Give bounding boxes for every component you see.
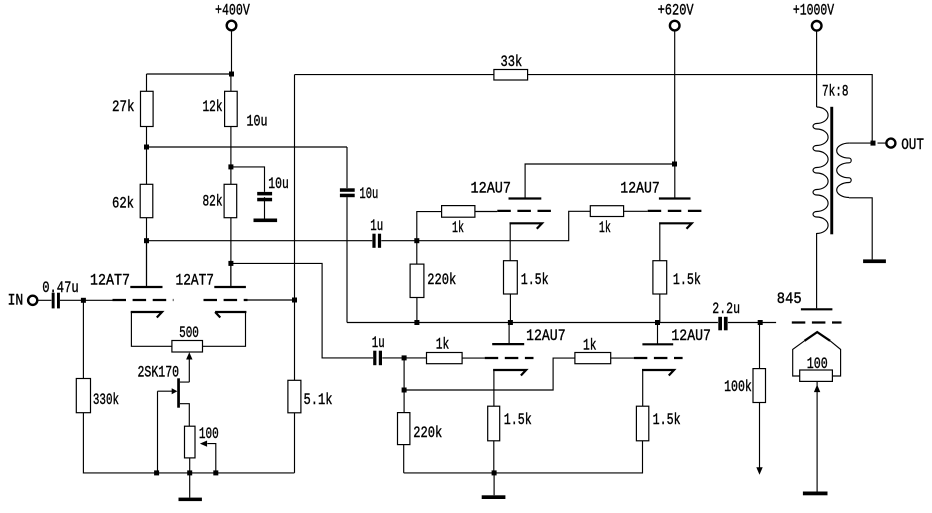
svg-text:1u: 1u [370, 217, 383, 235]
svg-text:+400V: +400V [215, 2, 250, 20]
svg-text:12AU7: 12AU7 [620, 180, 660, 198]
svg-text:1.5k: 1.5k [504, 411, 532, 429]
svg-text:1k: 1k [599, 219, 611, 237]
svg-text:0.47u: 0.47u [42, 279, 78, 297]
svg-text:7k:8: 7k:8 [822, 83, 849, 101]
svg-text:12AU7: 12AU7 [526, 327, 566, 345]
svg-text:12AU7: 12AU7 [671, 327, 711, 345]
svg-text:1k: 1k [436, 336, 450, 354]
svg-text:1.5k: 1.5k [521, 271, 549, 289]
svg-text:82k: 82k [203, 193, 223, 211]
svg-text:1u: 1u [372, 334, 385, 352]
svg-text:100: 100 [199, 425, 219, 443]
svg-text:220k: 220k [427, 271, 456, 289]
svg-text:330k: 330k [93, 391, 119, 409]
svg-text:12AT7: 12AT7 [176, 272, 215, 290]
svg-text:10u: 10u [359, 185, 378, 203]
svg-text:IN: IN [8, 292, 24, 310]
svg-text:10u: 10u [268, 175, 289, 193]
svg-text:12k: 12k [203, 98, 223, 116]
svg-text:+620V: +620V [658, 2, 695, 20]
svg-text:100k: 100k [724, 378, 752, 396]
svg-text:2.2u: 2.2u [712, 300, 740, 318]
svg-text:1k: 1k [452, 219, 464, 237]
svg-text:220k: 220k [413, 424, 442, 442]
svg-text:1.5k: 1.5k [673, 271, 701, 289]
svg-text:+1000V: +1000V [793, 2, 835, 20]
svg-text:100: 100 [807, 355, 828, 373]
svg-text:10u: 10u [247, 113, 268, 131]
svg-text:33k: 33k [501, 53, 523, 71]
svg-text:500: 500 [179, 324, 199, 342]
svg-text:2SK170: 2SK170 [138, 364, 180, 382]
svg-text:OUT: OUT [901, 136, 924, 154]
svg-text:62k: 62k [112, 195, 134, 213]
svg-text:845: 845 [777, 290, 802, 308]
svg-text:1.5k: 1.5k [653, 411, 681, 429]
svg-text:12AU7: 12AU7 [471, 180, 512, 198]
svg-text:1k: 1k [583, 337, 597, 355]
svg-text:27k: 27k [112, 98, 135, 116]
svg-text:12AT7: 12AT7 [90, 272, 130, 290]
svg-text:5.1k: 5.1k [304, 391, 333, 409]
